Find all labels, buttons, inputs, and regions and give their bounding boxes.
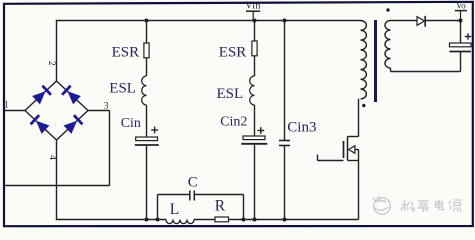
svg-text:ESR: ESR	[219, 44, 247, 60]
svg-text:1: 1	[4, 100, 9, 110]
svg-text:Cin2: Cin2	[220, 115, 247, 130]
svg-text:ESR: ESR	[112, 44, 140, 60]
svg-text:Vin: Vin	[245, 1, 261, 12]
svg-text:R: R	[215, 198, 226, 215]
svg-text:4: 4	[48, 155, 58, 160]
svg-text:3: 3	[104, 101, 109, 111]
svg-text:Cin3: Cin3	[287, 120, 316, 136]
svg-text:Vo: Vo	[456, 1, 466, 11]
svg-text:2: 2	[46, 61, 56, 66]
svg-text:L: L	[170, 201, 179, 218]
svg-text:C: C	[188, 174, 198, 190]
svg-text:ESL: ESL	[217, 86, 244, 102]
svg-text:ESL: ESL	[109, 81, 136, 97]
svg-text:Cin: Cin	[121, 116, 141, 131]
